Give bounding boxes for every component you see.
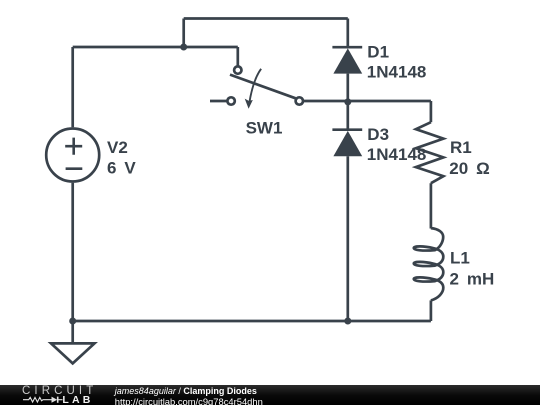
wire switch top lead (236, 47, 239, 66)
V2 plus sign (65, 138, 82, 155)
wire R1 top lead (430, 101, 433, 122)
footer title line (115, 386, 257, 396)
wire L1 bottom lead (430, 300, 433, 321)
logo diode (52, 396, 58, 402)
wire node to D3 cathode (346, 102, 349, 129)
switch SW1 right terminal (296, 97, 303, 104)
diode D1 cathode bar (332, 46, 362, 49)
switch SW1 top terminal (234, 66, 241, 73)
svg-text:6 V: 6 V (107, 159, 136, 178)
diode D3 cathode bar (332, 128, 362, 131)
node dot top junction (180, 44, 187, 51)
switch SW1 arrowhead (245, 99, 253, 109)
wire V2 bottom lead (71, 183, 74, 321)
svg-text:R1: R1 (450, 138, 472, 157)
svg-text:V2: V2 (107, 138, 128, 157)
inductor L1 (414, 228, 444, 300)
wire upper-left rail (73, 46, 238, 49)
svg-text:D3: D3 (367, 125, 389, 144)
logo LAB text (62, 394, 93, 405)
V2 minus sign (66, 167, 83, 170)
voltage source V2 circle (46, 129, 99, 182)
node dot bottom rail (344, 318, 351, 325)
node dot ground (69, 318, 76, 325)
svg-text:1N4148: 1N4148 (367, 63, 427, 82)
svg-text:D1: D1 (367, 43, 389, 62)
CircuitLab logo symbol row (22, 395, 97, 405)
wire R1 to L1 (430, 183, 433, 228)
switch SW1 open terminal (227, 97, 234, 104)
diode D1 triangle (333, 48, 362, 73)
wire top rail (184, 17, 348, 20)
wire switch open stub (210, 100, 227, 103)
svg-text:1N4148: 1N4148 (367, 145, 427, 164)
wire D1 top lead (346, 19, 349, 47)
diode D3 triangle (333, 131, 362, 156)
footer url line (115, 396, 263, 405)
wire bottom rail (73, 320, 431, 323)
wire D3 anode to bottom rail (346, 156, 349, 321)
footer attribution bar (0, 385, 540, 405)
svg-text:20 Ω: 20 Ω (449, 159, 489, 178)
wire ground lead (71, 321, 74, 343)
logo resistor zigzag (23, 397, 52, 402)
svg-text:2 mH: 2 mH (450, 269, 495, 288)
switch SW1 arc (249, 69, 261, 103)
ground symbol triangle (51, 343, 95, 363)
svg-text:L1: L1 (450, 248, 470, 267)
svg-text:SW1: SW1 (246, 118, 283, 137)
CircuitLab logo wordmark (22, 385, 97, 397)
wire D1 anode to node (346, 74, 349, 102)
wire V2 top lead (71, 47, 74, 127)
switch SW1 blade (230, 75, 296, 99)
resistor R1 (416, 122, 444, 183)
wire switch output to resistor (303, 100, 431, 103)
wire junction drop (182, 19, 185, 48)
node dot D1-D3-switch (344, 98, 351, 105)
